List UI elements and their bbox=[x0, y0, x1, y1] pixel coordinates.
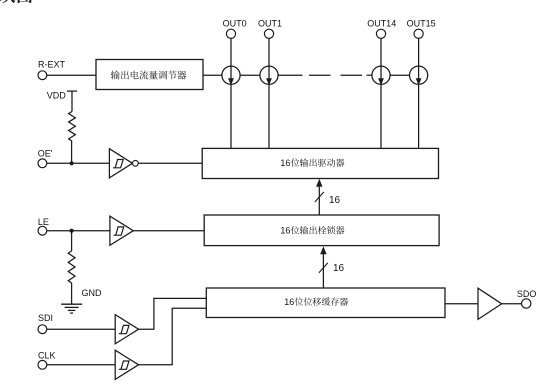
wire shift register to SDO buffer bbox=[445, 303, 478, 305]
bus latch to driver bbox=[318, 185, 320, 216]
wire OUT0 vertical bbox=[230, 38, 232, 148]
terminal OE' bbox=[38, 159, 47, 168]
svg-text:OUT14: OUT14 bbox=[367, 19, 396, 29]
buffer SDO bbox=[478, 288, 502, 319]
wire LE to buffer bbox=[47, 230, 110, 232]
svg-text:LE: LE bbox=[38, 217, 49, 227]
schmitt inverter OE bbox=[109, 149, 132, 178]
terminal CLK bbox=[38, 360, 47, 369]
terminal OUT1 bbox=[264, 29, 273, 38]
svg-text:OUT1: OUT1 bbox=[258, 19, 282, 29]
wire OE to buffer bbox=[47, 162, 110, 164]
svg-text:16: 16 bbox=[333, 263, 345, 274]
wire buffer to SDO terminal bbox=[502, 303, 522, 305]
svg-text:16: 16 bbox=[329, 195, 341, 206]
block: output current regulator bbox=[96, 60, 203, 90]
current source OUT15 bbox=[410, 66, 428, 84]
dashed rail seg2 bbox=[341, 74, 363, 76]
terminal OUT15 bbox=[414, 29, 423, 38]
svg-text:R-EXT: R-EXT bbox=[38, 59, 66, 69]
bus arrowhead up bbox=[316, 179, 322, 187]
text 输出电流量调节器 bbox=[111, 71, 187, 80]
terminal SDO bbox=[522, 299, 531, 308]
terminal LE bbox=[38, 226, 47, 235]
current source arrow OUT14 bbox=[378, 78, 384, 85]
dashed rail seg1 bbox=[309, 74, 331, 76]
wire rail to CS14 bbox=[367, 74, 372, 76]
svg-text:16: 16 bbox=[284, 297, 294, 307]
heading text (cut off): 块图 bbox=[0, 0, 32, 3]
svg-text:OE': OE' bbox=[38, 148, 53, 158]
svg-text:16: 16 bbox=[280, 226, 290, 236]
block: 16-bit shift register bbox=[206, 288, 445, 318]
text 位输出驱动器 bbox=[291, 158, 345, 166]
svg-text:OUT0: OUT0 bbox=[223, 19, 247, 29]
junction OE/resistor bbox=[70, 161, 74, 165]
wire CS14-CS15 bbox=[390, 74, 409, 76]
svg-text:GND: GND bbox=[82, 288, 103, 298]
schmitt buffer CLK bbox=[115, 350, 138, 379]
wire SDI buffer to shift register bbox=[139, 298, 207, 329]
wire LE buffer to latch bbox=[133, 230, 204, 232]
wire to GND bbox=[71, 283, 73, 304]
wire CS0-CS1 bbox=[240, 74, 260, 76]
wire CLK buffer to shift register bbox=[139, 308, 207, 365]
wire OUT1 vertical bbox=[268, 38, 270, 148]
current source OUT1 bbox=[260, 66, 278, 84]
schmitt buffer SDI bbox=[115, 315, 138, 344]
terminal R-EXT bbox=[38, 71, 47, 80]
wire CLK to buffer bbox=[47, 364, 115, 366]
terminal OUT14 bbox=[376, 29, 385, 38]
svg-text:16: 16 bbox=[280, 158, 290, 168]
VDD bar bbox=[67, 90, 77, 92]
resistor upper lead (LE) bbox=[71, 231, 73, 251]
current source arrow OUT15 bbox=[416, 78, 422, 85]
schmitt buffer LE bbox=[110, 216, 133, 245]
text 位输出栓锁器 bbox=[291, 226, 345, 234]
current source arrow OUT0 bbox=[228, 78, 234, 85]
bus shift to latch bbox=[322, 253, 324, 289]
current source OUT0 bbox=[222, 66, 240, 84]
block: 16-bit output latch bbox=[204, 215, 439, 246]
ground symbol bbox=[61, 304, 82, 313]
resistor VDD-OE bbox=[69, 112, 76, 142]
terminal OUT0 bbox=[226, 29, 235, 38]
wire R-EXT to regulator bbox=[47, 74, 96, 76]
wire OUT15 vertical bbox=[418, 38, 420, 148]
bus slash bbox=[315, 192, 324, 202]
resistor LE-GND bbox=[68, 251, 75, 283]
terminal SDI bbox=[38, 325, 47, 334]
svg-text:CLK: CLK bbox=[38, 351, 56, 361]
text 位位移缓存器 bbox=[295, 297, 349, 305]
bus slash (lower) bbox=[319, 263, 328, 273]
current source arrow OUT1 bbox=[266, 78, 272, 85]
wire SDI to buffer bbox=[47, 328, 115, 330]
resistor lower lead bbox=[71, 141, 73, 163]
svg-text:VDD: VDD bbox=[47, 90, 67, 100]
current source OUT14 bbox=[372, 66, 390, 84]
svg-text:SDO: SDO bbox=[517, 289, 537, 299]
wire regulator to CS0 bbox=[203, 74, 222, 76]
junction LE/resistor bbox=[70, 229, 74, 233]
wire CS1 rail right bbox=[278, 74, 302, 76]
wire OUT14 vertical bbox=[380, 38, 382, 148]
bus arrowhead up (lower) bbox=[320, 246, 326, 254]
block: 16-bit output driver bbox=[202, 148, 438, 178]
svg-text:OUT15: OUT15 bbox=[407, 19, 436, 29]
VDD lead bbox=[71, 91, 73, 111]
svg-text:SDI: SDI bbox=[38, 313, 53, 323]
wire OE buffer to driver bbox=[138, 162, 202, 164]
